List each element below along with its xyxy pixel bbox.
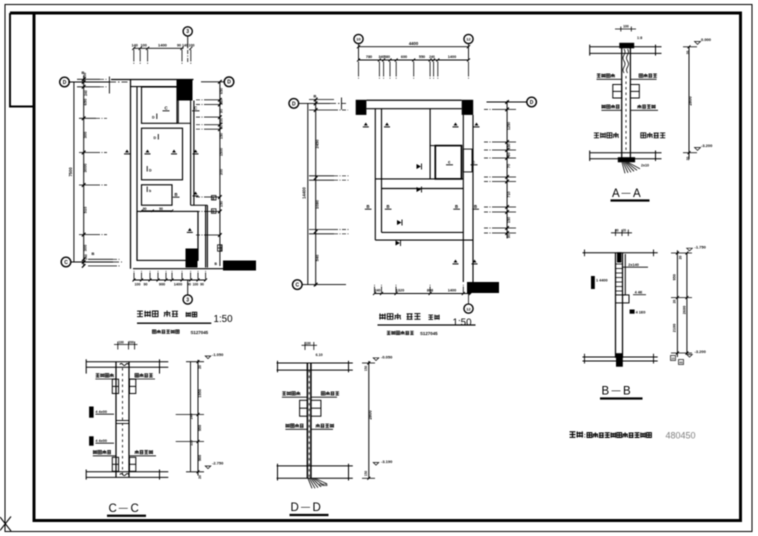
CC bottom level mark bbox=[205, 466, 211, 469]
svg-text:0.000: 0.000 bbox=[701, 37, 712, 42]
plan2 inner room bbox=[435, 146, 461, 179]
svg-text:540: 540 bbox=[315, 254, 320, 261]
plan1 right wall bbox=[190, 80, 192, 206]
CC top mini dim bbox=[117, 342, 119, 350]
svg-text:20: 20 bbox=[686, 51, 690, 55]
svg-text:20: 20 bbox=[623, 229, 627, 233]
DD right dim bottom level bbox=[362, 477, 375, 479]
plan1 grid line D right bbox=[201, 81, 225, 83]
svg-text:2800: 2800 bbox=[688, 96, 693, 106]
plan1 arrow near B bbox=[194, 192, 198, 195]
svg-text:140: 140 bbox=[132, 43, 138, 47]
CC top slab bbox=[86, 361, 168, 363]
svg-text:D: D bbox=[152, 116, 155, 120]
BB right dim bottom level bbox=[671, 352, 692, 354]
svg-text:4400: 4400 bbox=[409, 41, 419, 46]
svg-text:900: 900 bbox=[198, 455, 202, 461]
plan1 title underline bbox=[137, 322, 211, 324]
BB wall upper extra layer bbox=[624, 254, 626, 295]
plan1 left dimension chain inner bbox=[83, 76, 85, 267]
svg-text:1080: 1080 bbox=[315, 199, 320, 209]
CC upper annotation right bbox=[135, 374, 139, 378]
svg-text:150: 150 bbox=[220, 201, 224, 207]
svg-text:90: 90 bbox=[200, 282, 204, 286]
svg-text:3000: 3000 bbox=[83, 163, 88, 173]
title box top-left bbox=[10, 13, 34, 107]
plan1 grid line D bbox=[68, 81, 110, 83]
svg-text:-0.050: -0.050 bbox=[381, 354, 393, 359]
plan2 grid circle C left bbox=[293, 280, 303, 290]
svg-text:480450: 480450 bbox=[666, 431, 696, 441]
plan2 door mark 1 bbox=[421, 164, 423, 170]
plan1 title text bbox=[137, 311, 143, 316]
svg-text:D: D bbox=[313, 502, 321, 514]
svg-text:C: C bbox=[131, 503, 139, 515]
DD top mini dim bbox=[304, 342, 306, 350]
svg-text:3: 3 bbox=[186, 29, 189, 35]
svg-text:-1.750: -1.750 bbox=[695, 245, 707, 250]
AA right annotation upper bbox=[639, 74, 643, 78]
plan2 left wall bbox=[374, 109, 376, 240]
svg-text:12: 12 bbox=[466, 37, 471, 42]
svg-text:20: 20 bbox=[686, 157, 690, 161]
svg-text:100: 100 bbox=[193, 282, 199, 286]
plan1 walls top band bbox=[111, 79, 194, 81]
svg-text:1:8: 1:8 bbox=[637, 36, 642, 40]
plan1 room small bbox=[142, 185, 173, 205]
plan2 top dim ticks and extensions bbox=[357, 59, 360, 62]
plan2 left chain inner bbox=[315, 99, 317, 286]
svg-text:90: 90 bbox=[144, 282, 148, 286]
svg-text:100: 100 bbox=[189, 43, 195, 47]
svg-text:D: D bbox=[530, 100, 534, 106]
DD label underline bbox=[290, 514, 329, 516]
svg-text:C: C bbox=[295, 283, 299, 289]
svg-text:650: 650 bbox=[83, 98, 88, 105]
plan2 overall dim 4400 bbox=[358, 43, 360, 60]
plan1 top extension lines bbox=[133, 50, 135, 62]
svg-text:A: A bbox=[612, 188, 620, 200]
plan1 column bottom bbox=[186, 249, 198, 268]
plan2 top wall bbox=[366, 99, 461, 101]
svg-text:200: 200 bbox=[220, 118, 224, 124]
svg-text:2600: 2600 bbox=[683, 306, 687, 314]
svg-text:780: 780 bbox=[366, 55, 372, 59]
svg-text:90: 90 bbox=[159, 207, 163, 211]
svg-text:150: 150 bbox=[364, 366, 368, 372]
CC slab insulation squiggle bbox=[120, 364, 129, 366]
plan1 grid line C bbox=[70, 261, 113, 263]
CC lower step left bbox=[112, 457, 118, 471]
AA left annotation upper bbox=[597, 74, 601, 77]
plan2 bottom extensions bbox=[373, 292, 376, 295]
BB right dim lines bbox=[676, 250, 678, 357]
svg-text:10: 10 bbox=[356, 37, 361, 42]
plan1 stair arrow bottom room bbox=[188, 228, 192, 231]
svg-text:S127045: S127045 bbox=[420, 331, 438, 336]
CC lower step right bbox=[130, 457, 136, 471]
CC upper annotation left bbox=[96, 374, 100, 377]
svg-text:40: 40 bbox=[679, 361, 683, 365]
plan1 grid circle 3 top bbox=[183, 27, 192, 36]
svg-text:D: D bbox=[292, 101, 296, 107]
svg-text:D: D bbox=[63, 80, 67, 86]
CC lower annotation right bbox=[135, 450, 139, 454]
svg-text:1250: 1250 bbox=[507, 122, 511, 130]
svg-text:-1.050: -1.050 bbox=[212, 352, 224, 357]
svg-text:600: 600 bbox=[401, 55, 407, 59]
svg-text:20: 20 bbox=[679, 256, 683, 260]
svg-text:B: B bbox=[602, 386, 610, 398]
AA label underline bbox=[611, 199, 650, 201]
plan2 title underline bbox=[378, 324, 476, 326]
note text bottom right bbox=[570, 432, 576, 437]
svg-text:20: 20 bbox=[198, 475, 202, 479]
CC wall mid joint bbox=[116, 420, 129, 422]
svg-text:1500: 1500 bbox=[220, 148, 224, 156]
svg-text:70: 70 bbox=[507, 164, 511, 168]
svg-text:2x1B: 2x1B bbox=[319, 483, 328, 487]
AA zone text right bbox=[641, 133, 646, 138]
BB top slab line bbox=[583, 252, 658, 254]
svg-text:240: 240 bbox=[375, 289, 381, 293]
BB step notch bbox=[616, 295, 630, 303]
svg-text:3: 3 bbox=[186, 297, 189, 303]
svg-text:100: 100 bbox=[141, 43, 147, 47]
svg-text:550: 550 bbox=[419, 55, 425, 59]
svg-text::: : bbox=[584, 434, 586, 440]
svg-text:240: 240 bbox=[429, 55, 435, 59]
plan1 right chain tick rows bbox=[204, 99, 220, 101]
svg-text:300: 300 bbox=[83, 131, 88, 138]
svg-text:90: 90 bbox=[177, 43, 181, 47]
plan1 bottom wall bbox=[133, 268, 256, 270]
DD annotation upper left bbox=[282, 392, 286, 395]
plan2 door mark 4 bbox=[400, 240, 402, 246]
plan1 stair arrows bbox=[125, 150, 129, 153]
AA right dim top level bbox=[683, 46, 697, 48]
DD right dim line bbox=[368, 361, 370, 478]
CC wall inner dashes bbox=[122, 368, 124, 476]
plan2 bottom dimension line bbox=[375, 293, 471, 295]
svg-text:100: 100 bbox=[119, 341, 125, 345]
CC left black rect 1 bbox=[89, 407, 94, 418]
DD bottom hatch fan bbox=[308, 478, 312, 488]
DD wall bbox=[306, 363, 308, 478]
svg-text:90: 90 bbox=[143, 207, 147, 211]
svg-text:—: — bbox=[119, 503, 128, 513]
plan2 grid line C left bbox=[302, 284, 347, 286]
plan1 shaft below column bbox=[177, 101, 179, 124]
plan2 grid line D right bbox=[487, 101, 528, 103]
AA top slab bbox=[590, 46, 662, 48]
svg-text:4 1E0: 4 1E0 bbox=[636, 311, 646, 315]
plan2 stair arrows bottom bbox=[454, 260, 458, 263]
svg-text:12: 12 bbox=[466, 306, 471, 311]
plan2 grid tick near wall bbox=[341, 98, 343, 110]
svg-text:C: C bbox=[64, 260, 68, 266]
plan1 subtitle bbox=[152, 330, 155, 333]
plan1 grid circle D left bbox=[60, 77, 70, 87]
plan2 black bar bottom bbox=[467, 282, 499, 293]
svg-text:200: 200 bbox=[129, 341, 135, 345]
BB top mini dim bbox=[615, 230, 617, 237]
svg-text:90: 90 bbox=[220, 109, 224, 113]
AA top black band bbox=[619, 43, 634, 49]
AA left step box bbox=[613, 85, 622, 99]
plan1 grid circle C left bbox=[61, 257, 71, 267]
svg-text:7500: 7500 bbox=[68, 167, 73, 177]
CC wall bbox=[115, 362, 117, 478]
AA wall bbox=[621, 47, 623, 159]
plan1 right step walls bbox=[191, 204, 208, 206]
svg-text:C: C bbox=[109, 503, 117, 515]
svg-text:2800: 2800 bbox=[368, 410, 373, 420]
BB black square bbox=[630, 310, 635, 314]
plan1 door mark D4 bbox=[146, 187, 148, 193]
svg-text:2x140: 2x140 bbox=[628, 263, 639, 267]
plan2 column top-left bbox=[356, 100, 367, 115]
svg-text:B: B bbox=[455, 204, 458, 209]
plan1 bottom extension lines bbox=[133, 273, 135, 280]
DD top slab bbox=[277, 362, 353, 364]
plan2 right wall bbox=[462, 115, 464, 282]
svg-text:1 4400: 1 4400 bbox=[596, 279, 608, 283]
svg-text:—: — bbox=[301, 502, 310, 512]
svg-text:B: B bbox=[92, 251, 95, 256]
plan2 mid floor band bbox=[375, 178, 463, 180]
svg-text:950: 950 bbox=[673, 274, 677, 280]
plan1 door mark D3 bbox=[146, 166, 148, 172]
svg-text:300: 300 bbox=[220, 169, 224, 175]
svg-text:300: 300 bbox=[83, 244, 88, 251]
plan2 right chain tick rows bbox=[505, 100, 509, 104]
DD annotation lower left bbox=[286, 424, 290, 428]
plan2 grid circle 12 bottom bbox=[468, 294, 470, 305]
svg-text:90: 90 bbox=[507, 234, 511, 238]
plan1 room B bbox=[142, 128, 183, 180]
svg-text:240: 240 bbox=[84, 254, 88, 260]
svg-text:2100: 2100 bbox=[673, 324, 677, 332]
plan1 black bar bottom right bbox=[223, 261, 256, 271]
plan1 room bottom large bbox=[137, 211, 198, 260]
svg-text:60: 60 bbox=[220, 125, 224, 129]
svg-text:100: 100 bbox=[306, 341, 312, 345]
svg-text:150: 150 bbox=[220, 133, 224, 139]
svg-text:B: B bbox=[314, 94, 317, 99]
svg-text:D: D bbox=[154, 136, 157, 140]
svg-text:710: 710 bbox=[507, 191, 511, 197]
CC right dim rows bbox=[186, 361, 204, 363]
svg-text:900: 900 bbox=[159, 282, 165, 286]
svg-text:1400: 1400 bbox=[448, 55, 456, 59]
plan2 right chain bbox=[506, 101, 508, 239]
plan2 title text bbox=[379, 313, 386, 319]
svg-text:1320: 1320 bbox=[396, 289, 404, 293]
svg-text:2x10: 2x10 bbox=[641, 164, 649, 168]
svg-text:140: 140 bbox=[182, 43, 188, 47]
svg-text:100: 100 bbox=[135, 282, 141, 286]
svg-text:150: 150 bbox=[507, 143, 511, 149]
AA right dim line bbox=[688, 47, 690, 160]
svg-text:4 4E: 4 4E bbox=[635, 291, 643, 295]
svg-text:808: 808 bbox=[427, 289, 433, 293]
plan1 left wall bbox=[130, 80, 132, 269]
svg-text:580: 580 bbox=[384, 55, 390, 59]
plan1 bottom dimension line bbox=[133, 279, 206, 281]
svg-text:80: 80 bbox=[615, 229, 619, 233]
AA top mini dim bbox=[620, 27, 622, 32]
CC bottom slab squiggle bbox=[120, 474, 129, 476]
plan1 room A bbox=[142, 87, 178, 123]
svg-text:650: 650 bbox=[220, 88, 224, 94]
svg-text:15: 15 bbox=[671, 357, 675, 361]
plan1 dim boxes right wall bbox=[212, 196, 217, 201]
plan2 right wall door stub bbox=[463, 149, 472, 172]
BB wall top black segment bbox=[617, 252, 621, 262]
DD annotation lower right bbox=[316, 424, 320, 428]
CC lower annotation left bbox=[93, 450, 97, 454]
DD right dim top level bbox=[362, 362, 375, 364]
svg-text:20: 20 bbox=[198, 365, 202, 369]
CC upper step right bbox=[130, 379, 136, 393]
AA wall insulation squiggle bbox=[623, 49, 625, 73]
plan2 door mark 3 bbox=[401, 220, 403, 226]
svg-text:950: 950 bbox=[198, 425, 202, 431]
svg-text:110: 110 bbox=[190, 440, 194, 446]
CC bottom slab bbox=[86, 471, 168, 473]
AA right dim bottom level bbox=[683, 152, 697, 154]
svg-text:1:50: 1:50 bbox=[453, 318, 473, 329]
DD step box right bbox=[311, 400, 321, 416]
plan2 door mark 2 bbox=[421, 187, 423, 193]
plan1 grid tick near wall bbox=[108, 77, 110, 94]
svg-text:4 4x00: 4 4x00 bbox=[95, 439, 107, 443]
AA zone text left bbox=[594, 133, 599, 138]
DD annotation upper right bbox=[321, 392, 325, 396]
svg-text:2450: 2450 bbox=[315, 139, 320, 149]
svg-text:D: D bbox=[227, 80, 231, 86]
svg-text:—: — bbox=[622, 188, 631, 198]
corner X mark bbox=[0, 517, 11, 531]
DD wall dashes bbox=[308, 370, 310, 477]
AA wall center dashes bbox=[625, 76, 627, 150]
plan1 top dimension line bbox=[133, 47, 184, 49]
plan2 subtitle bbox=[387, 331, 391, 334]
svg-text:B: B bbox=[474, 204, 477, 209]
svg-text:B: B bbox=[623, 386, 631, 398]
plan1 grid line from circle 3 bbox=[187, 36, 189, 49]
CC upper step left bbox=[112, 379, 118, 393]
AA right annotation mid bbox=[637, 105, 641, 109]
DD step box left bbox=[300, 400, 308, 416]
svg-text:1400: 1400 bbox=[448, 289, 456, 293]
AA left annotation mid bbox=[602, 105, 606, 109]
svg-text:-3.200: -3.200 bbox=[701, 143, 713, 148]
svg-text:D: D bbox=[291, 502, 299, 514]
plan1 grid circle 3 bottom bbox=[187, 280, 189, 295]
svg-text:-3.200: -3.200 bbox=[695, 349, 707, 354]
CC left black rect 2 bbox=[89, 436, 94, 445]
plan2 bottom wall bbox=[382, 231, 464, 233]
svg-text:140: 140 bbox=[190, 414, 194, 420]
BB right dim top level bbox=[671, 252, 692, 254]
plan2 column top-right bbox=[462, 100, 474, 115]
plan2 room1 right partition bbox=[429, 109, 431, 179]
plan1 left dimension chain outer bbox=[73, 82, 75, 262]
svg-text:150: 150 bbox=[507, 217, 511, 223]
svg-text:-3.190: -3.190 bbox=[381, 459, 393, 464]
plan1 right dimension chain bbox=[219, 82, 221, 266]
svg-text:1400: 1400 bbox=[158, 42, 168, 47]
plan2 grid circle 10 bbox=[354, 34, 363, 43]
AA bottom hatch fan bbox=[622, 162, 625, 173]
svg-text:510: 510 bbox=[83, 206, 88, 213]
CC right dim line bbox=[197, 360, 199, 476]
plan2 grid line D left bbox=[298, 102, 330, 104]
BB left box bbox=[591, 276, 595, 289]
DD bottom slab bbox=[277, 465, 353, 467]
plan2 grid circle D right bbox=[527, 97, 537, 107]
svg-text:-2.750: -2.750 bbox=[212, 461, 224, 466]
svg-text:90: 90 bbox=[507, 152, 511, 156]
CC label underline bbox=[107, 515, 146, 517]
plan2 left chain outer bbox=[307, 103, 309, 284]
svg-text:1950: 1950 bbox=[198, 389, 202, 397]
plan2 left chain tick rows bbox=[309, 175, 334, 177]
plan1 left chain tick rows bbox=[79, 117, 96, 119]
plan2 grid circle D left bbox=[289, 99, 299, 109]
svg-text:14400: 14400 bbox=[302, 187, 307, 199]
svg-text:150: 150 bbox=[220, 99, 224, 105]
plan1 column top-right bbox=[177, 80, 193, 101]
svg-text:200: 200 bbox=[83, 73, 87, 79]
svg-text:150: 150 bbox=[364, 471, 368, 477]
plan2 stair arrows top bbox=[364, 123, 368, 126]
plan2 top dimension line bbox=[359, 59, 469, 61]
svg-text:B: B bbox=[387, 204, 390, 209]
CC top level mark bbox=[205, 356, 211, 359]
BB wall bbox=[615, 253, 617, 358]
svg-text:6.10: 6.10 bbox=[316, 353, 323, 357]
AA bottom slab bbox=[590, 152, 662, 154]
AA bottom black band bbox=[618, 157, 635, 162]
BB bottom slab line bbox=[583, 356, 658, 358]
svg-text:1400: 1400 bbox=[174, 282, 182, 286]
BB label underline bbox=[600, 397, 643, 399]
plan1 grid circle D right bbox=[224, 77, 234, 87]
svg-text:4 4x00: 4 4x00 bbox=[95, 410, 107, 414]
svg-text:—: — bbox=[612, 385, 621, 395]
BB wall upper ladder rungs bbox=[616, 263, 623, 265]
svg-text:A: A bbox=[633, 188, 641, 200]
plan2 grid circle 12 bbox=[464, 34, 473, 43]
svg-text:100: 100 bbox=[623, 25, 629, 29]
svg-text:240: 240 bbox=[84, 90, 88, 96]
BB wall bottom blob bbox=[616, 353, 623, 367]
svg-text:B: B bbox=[175, 192, 178, 197]
svg-text:B: B bbox=[367, 204, 370, 209]
svg-text:S127045: S127045 bbox=[191, 330, 209, 335]
AA right step box bbox=[630, 85, 639, 99]
svg-text:20: 20 bbox=[673, 300, 677, 304]
svg-text:D: D bbox=[149, 169, 152, 173]
svg-text:1:50: 1:50 bbox=[214, 314, 234, 325]
